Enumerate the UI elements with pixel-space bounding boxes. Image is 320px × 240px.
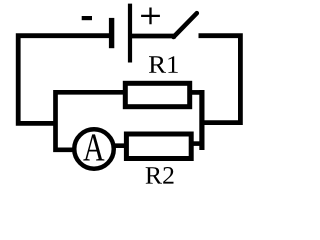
wire: battery positive plate to switch pivot [130, 34, 176, 39]
ammeter A1 body [74, 129, 114, 169]
wire: R2 right lead to right bar [191, 141, 202, 146]
switch S1 open blade [174, 13, 197, 37]
resistor R2 body [126, 134, 191, 159]
resistor R1 label [149, 56, 178, 72]
battery B1 negative plate (short) [109, 18, 114, 48]
wire: R1 right lead to right bar [190, 90, 202, 95]
battery minus label [82, 16, 92, 20]
resistor R2 label [146, 167, 174, 184]
battery B1 positive plate (long) [128, 4, 132, 63]
battery plus label [141, 8, 160, 25]
wire: switch right contact along top, down right side, to right junction bar [199, 36, 241, 123]
wire: ammeter to R2 [110, 143, 127, 148]
node: left junction bar with wire to R1 (top) and wire to ammeter (bottom) [56, 92, 125, 150]
ammeter A1 letter [83, 134, 104, 160]
node: right junction bar [199, 90, 204, 150]
resistor R1 body [125, 83, 189, 106]
wire: from battery negative plate left along top, down left side, to left junction bar [18, 36, 110, 124]
